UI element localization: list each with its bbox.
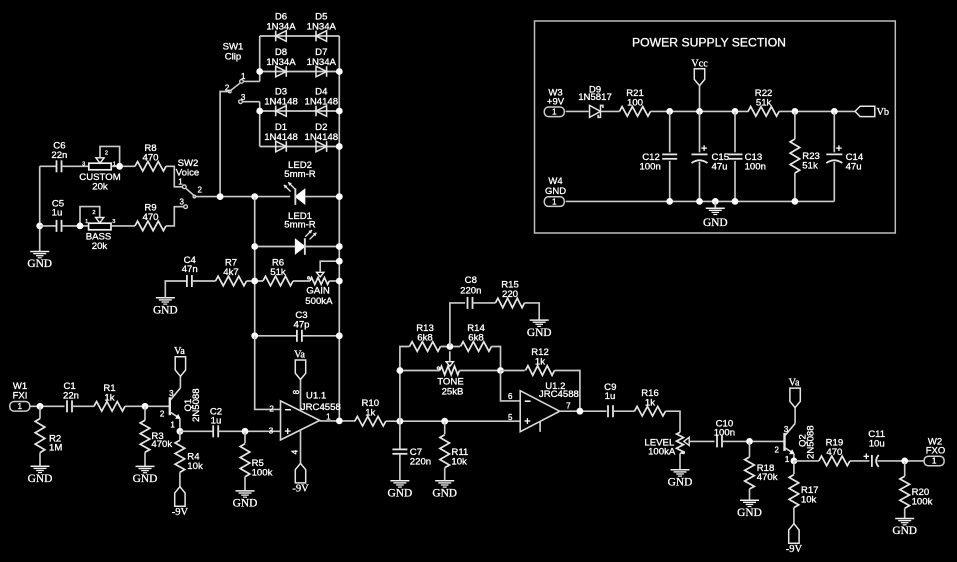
svg-text:1u: 1u [605,391,616,402]
svg-text:1N34A: 1N34A [307,57,337,68]
svg-text:GND: GND [133,473,158,485]
switch SW2 Voice [176,158,203,208]
wire R8 to SW2 pin1 [166,166,183,187]
wire R9 to SW2 pin3 [166,207,184,226]
resistor R4 10k [175,431,203,486]
resistor R11 10k [440,421,468,481]
capacitor C14 47u [826,111,864,201]
junction [336,108,343,115]
svg-text:100k: 100k [912,496,933,507]
resistor R17 10k [789,461,818,524]
svg-text:5mm-R: 5mm-R [284,220,316,231]
transistor Q2 2N5088 [775,408,817,464]
svg-text:GND: GND [432,488,457,500]
svg-text:-9V: -9V [172,507,189,518]
svg-text:1: 1 [552,197,557,206]
wire SW1 pin3 [242,101,259,103]
svg-text:1N4148: 1N4148 [264,132,298,143]
junction [746,438,753,445]
svg-text:51k: 51k [756,98,772,109]
svg-text:100n: 100n [639,162,660,173]
wire left rail upper diodes [259,36,261,81]
wire [602,110,620,112]
svg-text:GND: GND [28,473,53,485]
junction [37,403,44,410]
diode D2 1N4148 [304,122,338,152]
wire [247,280,264,282]
svg-text:20k: 20k [92,181,108,192]
svg-text:POWER SUPPLY SECTION: POWER SUPPLY SECTION [632,36,786,50]
capacitor C6 22n [40,141,89,173]
junction [336,278,343,285]
ground [27,252,52,271]
junction [831,108,838,115]
svg-text:3: 3 [269,426,274,435]
svg-text:1M: 1M [49,443,62,454]
junction [242,428,249,435]
capacitor C12 100n [639,111,677,201]
svg-text:220n: 220n [460,285,481,296]
svg-text:2: 2 [269,405,274,414]
junction [732,198,739,205]
svg-text:47n: 47n [182,264,198,275]
resistor R2 1M [35,406,62,466]
svg-text:Va: Va [294,349,305,360]
svg-text:470k: 470k [757,472,778,483]
svg-text:20k: 20k [92,241,108,252]
svg-text:2: 2 [105,151,108,157]
connector W1 FXI [10,381,30,411]
wire inverting input rail [255,336,281,410]
wire tone left branch [400,347,410,422]
svg-text:500kA: 500kA [305,296,333,307]
svg-text:3: 3 [112,219,115,225]
wire top power rail [651,110,749,112]
wire diode row 1 [260,35,340,37]
junction [397,418,404,425]
svg-text:1: 1 [785,455,790,464]
svg-text:GND: GND [892,525,917,537]
junction [77,223,84,230]
junction [666,108,673,115]
capacitor C9 1u [604,382,634,417]
svg-text:4: 4 [291,449,300,454]
capacitor C4 47n [182,255,216,287]
diode D5 1N34A [307,11,337,41]
svg-text:1k: 1k [645,397,655,408]
resistor R16 1k [635,388,666,416]
junction [666,198,673,205]
ground [737,500,762,519]
junction [256,108,263,115]
junction [497,367,504,374]
svg-text:Clip: Clip [225,51,242,62]
junction [447,343,454,350]
power flag Vcc [691,58,708,111]
svg-text:6: 6 [508,392,513,401]
svg-text:FXO: FXO [926,446,946,457]
svg-text:2N5088: 2N5088 [191,388,202,422]
wire left rail [39,166,41,251]
wire [794,460,819,462]
svg-text:6k8: 6k8 [468,333,483,344]
svg-text:47u: 47u [712,162,728,173]
wire [125,405,169,407]
svg-text:Va: Va [789,378,800,389]
wire bottom power rail [566,200,835,202]
svg-text:1: 1 [18,402,23,411]
diode D8 1N34A [266,47,296,77]
svg-text:220: 220 [502,289,518,300]
wire SW1 pin1 [243,80,259,82]
svg-text:220n: 220n [410,456,431,467]
wire main row [386,420,520,422]
junction [791,458,798,465]
svg-text:1: 1 [170,420,175,429]
wire SW2 common LED row [194,196,290,198]
svg-text:22n: 22n [51,150,67,161]
svg-text:1N4148: 1N4148 [304,96,338,107]
junction [251,332,258,339]
LED LED2 5mm-R [284,160,340,205]
resistor R21 100 [620,88,651,116]
ground [233,491,258,510]
diode D7 1N34A [307,47,337,77]
junction [256,68,263,75]
switch SW1 Clip [223,41,246,103]
svg-text:-9V: -9V [292,484,309,495]
svg-text:100n: 100n [745,162,766,173]
junction [397,367,404,374]
svg-text:4k7: 4k7 [223,267,238,278]
svg-text:1: 1 [326,412,331,421]
wire [441,346,461,348]
wire diode row 4 [260,146,340,148]
wire left rail lower diodes [259,102,261,147]
svg-text:100: 100 [627,98,643,109]
svg-text:2: 2 [92,210,95,216]
wire LED left rail [254,197,256,336]
capacitor C3 47p [255,310,340,342]
ground [28,466,53,485]
svg-text:3: 3 [82,162,85,168]
op-amp U1.1 JRC4558 [269,380,341,464]
ground [133,466,158,485]
svg-text:1: 1 [85,219,88,225]
potentiometer TONE 25kB [400,351,501,398]
wire [30,405,65,407]
junction [142,403,149,410]
svg-text:10u: 10u [869,438,885,449]
junction [251,243,258,250]
svg-text:GND: GND [388,488,413,500]
svg-text:3: 3 [179,197,184,206]
svg-text:6k8: 6k8 [417,333,432,344]
svg-text:1N34A: 1N34A [266,57,296,68]
resistor R18 470k [745,441,778,500]
resistor R8 470 [135,143,166,171]
svg-text:22n: 22n [63,390,79,401]
resistor R12 1k [501,347,580,411]
svg-text:2: 2 [198,186,203,195]
resistor R3 470k [140,406,172,466]
svg-text:470k: 470k [151,439,172,450]
svg-text:Va: Va [174,346,185,357]
capacitor C11 10u [864,429,925,467]
capacitor C13 100n [728,111,766,201]
junction [336,243,343,250]
svg-text:51k: 51k [802,161,818,172]
power flag Va [174,346,186,376]
svg-text:U1.1: U1.1 [306,390,326,401]
svg-text:10k: 10k [451,456,467,467]
net tag Vb [855,106,889,118]
svg-text:100kA: 100kA [648,447,676,458]
junction [336,418,343,425]
ground [527,320,552,339]
svg-text:47p: 47p [293,319,309,330]
ground [432,481,457,500]
junction [336,258,343,265]
junction [732,108,739,115]
junction [336,193,343,200]
ground [892,519,917,538]
capacitor C15 47u [692,111,730,201]
svg-text:1: 1 [178,177,183,186]
connector W4 GND [544,176,566,206]
svg-text:-9V: -9V [786,544,803,555]
wire [111,165,135,167]
svg-text:+9V: +9V [547,96,565,107]
svg-text:10k: 10k [801,494,817,505]
svg-text:47u: 47u [846,162,862,173]
capacitor C7 220n [392,421,431,481]
svg-text:JRC4588: JRC4588 [539,389,579,400]
svg-text:1k: 1k [535,357,545,368]
svg-text:1N34A: 1N34A [266,21,296,32]
svg-text:JRC4558: JRC4558 [301,402,341,413]
resistor R5 100k [240,431,272,491]
svg-text:Vcc: Vcc [691,58,708,69]
junction [177,428,184,435]
junction [251,193,258,200]
svg-text:1k: 1k [104,392,114,403]
ground [703,198,728,229]
svg-text:1k: 1k [365,407,375,418]
resistor R9 470 [135,203,166,231]
wire [566,110,589,112]
svg-text:5mm-R: 5mm-R [284,169,316,180]
svg-text:2: 2 [160,410,165,419]
power flag Va [294,349,306,379]
potentiometer LEVEL 100kA [644,432,714,470]
svg-text:470: 470 [142,212,158,223]
junction [36,223,43,230]
wire [525,303,540,320]
svg-text:100k: 100k [252,468,273,479]
resistor R15 220 [496,280,525,308]
ground [388,481,413,500]
svg-text:1u: 1u [52,208,63,219]
capacitor C1 22n [63,381,94,412]
svg-text:GND: GND [527,327,552,339]
svg-text:2: 2 [775,445,780,454]
capacitor C5 1u [40,198,89,232]
resistor R6 51k [263,258,293,286]
resistor R19 470 [819,438,850,466]
junction [336,143,343,150]
connector W2 FXO [924,437,945,466]
svg-text:GND: GND [737,507,762,519]
resistor R10 1k [355,398,386,426]
diode D1 1N4148 [264,122,298,152]
junction [577,408,584,415]
svg-text:1N34A: 1N34A [307,21,337,32]
svg-text:GND: GND [153,305,178,317]
connector W3 +9V [544,88,564,117]
resistor R14 6k8 [461,323,492,351]
resistor R7 4k7 [216,258,247,286]
svg-text:GND: GND [233,498,258,510]
svg-text:25kB: 25kB [442,387,464,398]
wire [492,347,501,371]
ground [668,470,693,489]
capacitor C10 100n [714,419,784,448]
svg-text:1: 1 [932,457,937,466]
wire [850,460,870,462]
svg-text:5: 5 [508,413,513,422]
junction [696,198,703,205]
svg-text:3: 3 [169,389,174,398]
power supply section border [535,21,896,233]
capacitor C8 220n [450,275,496,346]
wire diode row 2 [260,71,340,73]
transistor Q1 2N5088 [160,376,202,431]
svg-text:Vb: Vb [877,107,890,118]
junction [116,163,123,170]
svg-text:1N5817: 1N5817 [578,92,612,103]
svg-text:GND: GND [703,217,728,229]
junction [217,193,224,200]
junction [441,418,448,425]
svg-text:FXI: FXI [13,390,28,401]
diode D4 1N4148 [304,86,338,116]
resistor R13 6k8 [410,323,441,351]
svg-text:470: 470 [142,152,158,163]
resistor R23 51k [790,111,820,201]
potentiometer GAIN 500kA [305,261,339,307]
svg-text:TONE: TONE [437,376,463,387]
potentiometer BASS 20k [80,207,115,252]
power flag -9V [172,487,189,518]
junction [336,332,343,339]
wire op-amp output [560,410,607,412]
LED LED1 5mm-R [255,211,340,255]
junction [901,458,908,465]
wire top power rail right [779,110,855,112]
resistor R20 100k [900,461,933,519]
diode D9 1N5817 [578,85,612,118]
svg-text:100n: 100n [714,428,735,439]
svg-text:470: 470 [826,447,842,458]
resistor R1 1k [94,383,125,411]
svg-text:1: 1 [241,72,246,81]
svg-text:7: 7 [566,402,571,411]
junction [792,108,799,115]
junction [251,278,258,285]
junction [696,108,703,115]
diode D3 1N4148 [264,86,298,116]
wire SW1 common to voice row [220,92,230,197]
svg-text:8: 8 [292,389,301,394]
svg-text:GND: GND [668,477,693,489]
wire op-amp output [320,420,355,422]
svg-text:51k: 51k [270,267,286,278]
op-amp U1.2 JRC4588 [508,381,579,432]
wire [293,280,310,282]
power flag -9V [292,463,309,494]
wire [666,411,681,432]
power flag Va [789,378,801,408]
wire [111,225,135,227]
wire diode row 3 [260,110,340,112]
power flag -9V [786,524,803,555]
svg-text:1u: 1u [211,415,222,426]
junction [792,198,799,205]
svg-text:GND: GND [545,186,566,197]
svg-text:1: 1 [552,108,557,117]
wire to pin 6 [501,371,521,401]
diode D6 1N34A [266,11,296,41]
junction [336,68,343,75]
svg-text:1N4148: 1N4148 [264,96,298,107]
resistor R22 51k [748,88,779,116]
potentiometer CUSTOM 20k [79,146,120,192]
ground [153,281,187,317]
svg-text:10k: 10k [187,461,203,472]
svg-text:2N5088: 2N5088 [806,425,817,459]
wire right rail [338,36,340,421]
capacitor C2 1u [180,406,281,437]
svg-text:3: 3 [241,93,246,102]
svg-text:GND: GND [27,258,52,270]
svg-text:3: 3 [784,425,789,434]
svg-text:1N4148: 1N4148 [304,132,338,143]
